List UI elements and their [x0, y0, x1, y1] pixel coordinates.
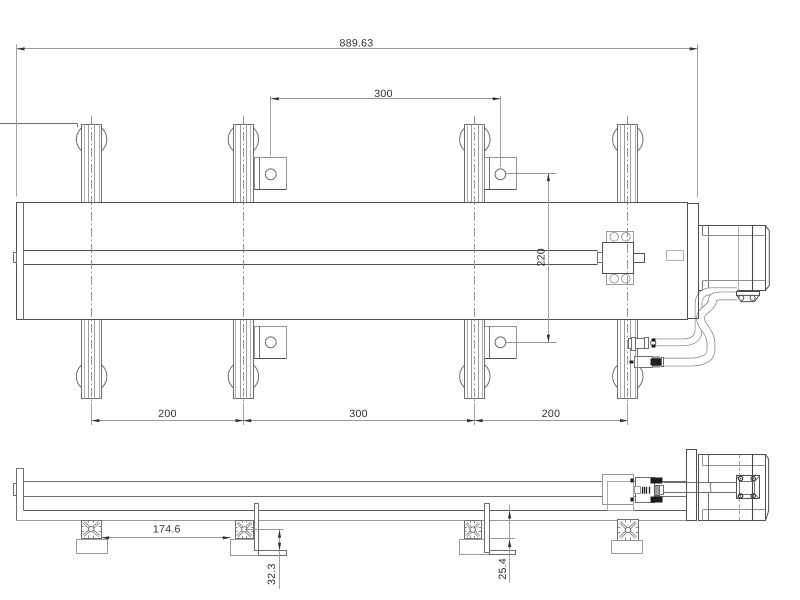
dimension 32.3 [245, 529, 283, 531]
base plate under F2 [231, 540, 259, 556]
dimension 300 bracket spacing [270, 96, 272, 156]
foot extrusion F1 (side view) [82, 521, 102, 539]
screw housing band [23, 250, 598, 252]
svg-text:32.3: 32.3 [266, 563, 278, 585]
svg-text:300: 300 [349, 408, 367, 420]
left end plate (side view) [17, 469, 24, 521]
support post P1 with rollers (top view) [76, 124, 106, 154]
actuator main body (top view) [17, 203, 688, 320]
carriage block (side view) [603, 475, 634, 505]
sensor connector C1 (upper) [629, 339, 632, 349]
side notch on body right [667, 251, 684, 261]
motor connector box (top view) [737, 292, 760, 296]
left end tab (top view) [14, 253, 17, 263]
support post P4 with rollers (top view) [613, 124, 643, 154]
base plate under F3 [460, 540, 490, 555]
cable A outline [655, 291, 737, 342]
sensor connector C2 (lower) [630, 361, 634, 364]
carriage block (top view) [607, 232, 634, 285]
svg-text:174.6: 174.6 [153, 524, 181, 536]
dimension 174.6 [101, 537, 230, 539]
svg-text:300: 300 [374, 88, 392, 100]
foot extrusion F4 (side view) [618, 520, 639, 541]
dimension 25.4 [489, 538, 515, 540]
mounting bracket lower-left with hole [255, 327, 287, 359]
stepper motor (top view) [699, 226, 766, 291]
mounting bracket lower-right with hole [485, 327, 517, 359]
base plate under F1 [77, 540, 108, 554]
DB9 connector on carriage (side view) [631, 479, 634, 483]
mounting bracket upper-right with hole [485, 158, 517, 190]
support post P3 with rollers (top view) [460, 124, 490, 154]
foot extrusion F3 (side view) [465, 521, 482, 539]
dimension 220 vertical [506, 173, 557, 175]
dimension 889.63 overall length [16, 44, 18, 196]
motor flange plate with bolts (side view) [737, 476, 760, 499]
motor mounting plate (side view) [687, 450, 697, 521]
motor plate edge redraw [687, 280, 689, 319]
dimension chain 200-300-200 [91, 403, 93, 425]
cable B outline [664, 296, 737, 362]
svg-text:25.4: 25.4 [497, 558, 509, 580]
svg-text:200: 200 [158, 408, 176, 420]
svg-text:200: 200 [542, 408, 560, 420]
support post P2 with rollers (top view) [228, 124, 258, 154]
base plate under F4 [612, 541, 643, 554]
motor mounting plate (top view) [688, 204, 699, 319]
stray edge line top-left [0, 123, 78, 125]
rail body (side view) [23, 481, 686, 483]
stepper motor (side view) [699, 455, 766, 521]
left end tab (side view) [14, 484, 17, 496]
svg-text:889.63: 889.63 [340, 37, 374, 49]
sensor L-bracket at F4 area [485, 504, 490, 553]
post center lines (dash-dot) [91, 116, 93, 405]
drive shaft (side view) [664, 482, 737, 484]
mounting bracket upper-left with hole [255, 158, 287, 190]
foot extrusion F2 (side view) [236, 521, 254, 539]
sensor L-bracket at F2 [255, 504, 259, 551]
svg-text:220: 220 [536, 248, 548, 266]
